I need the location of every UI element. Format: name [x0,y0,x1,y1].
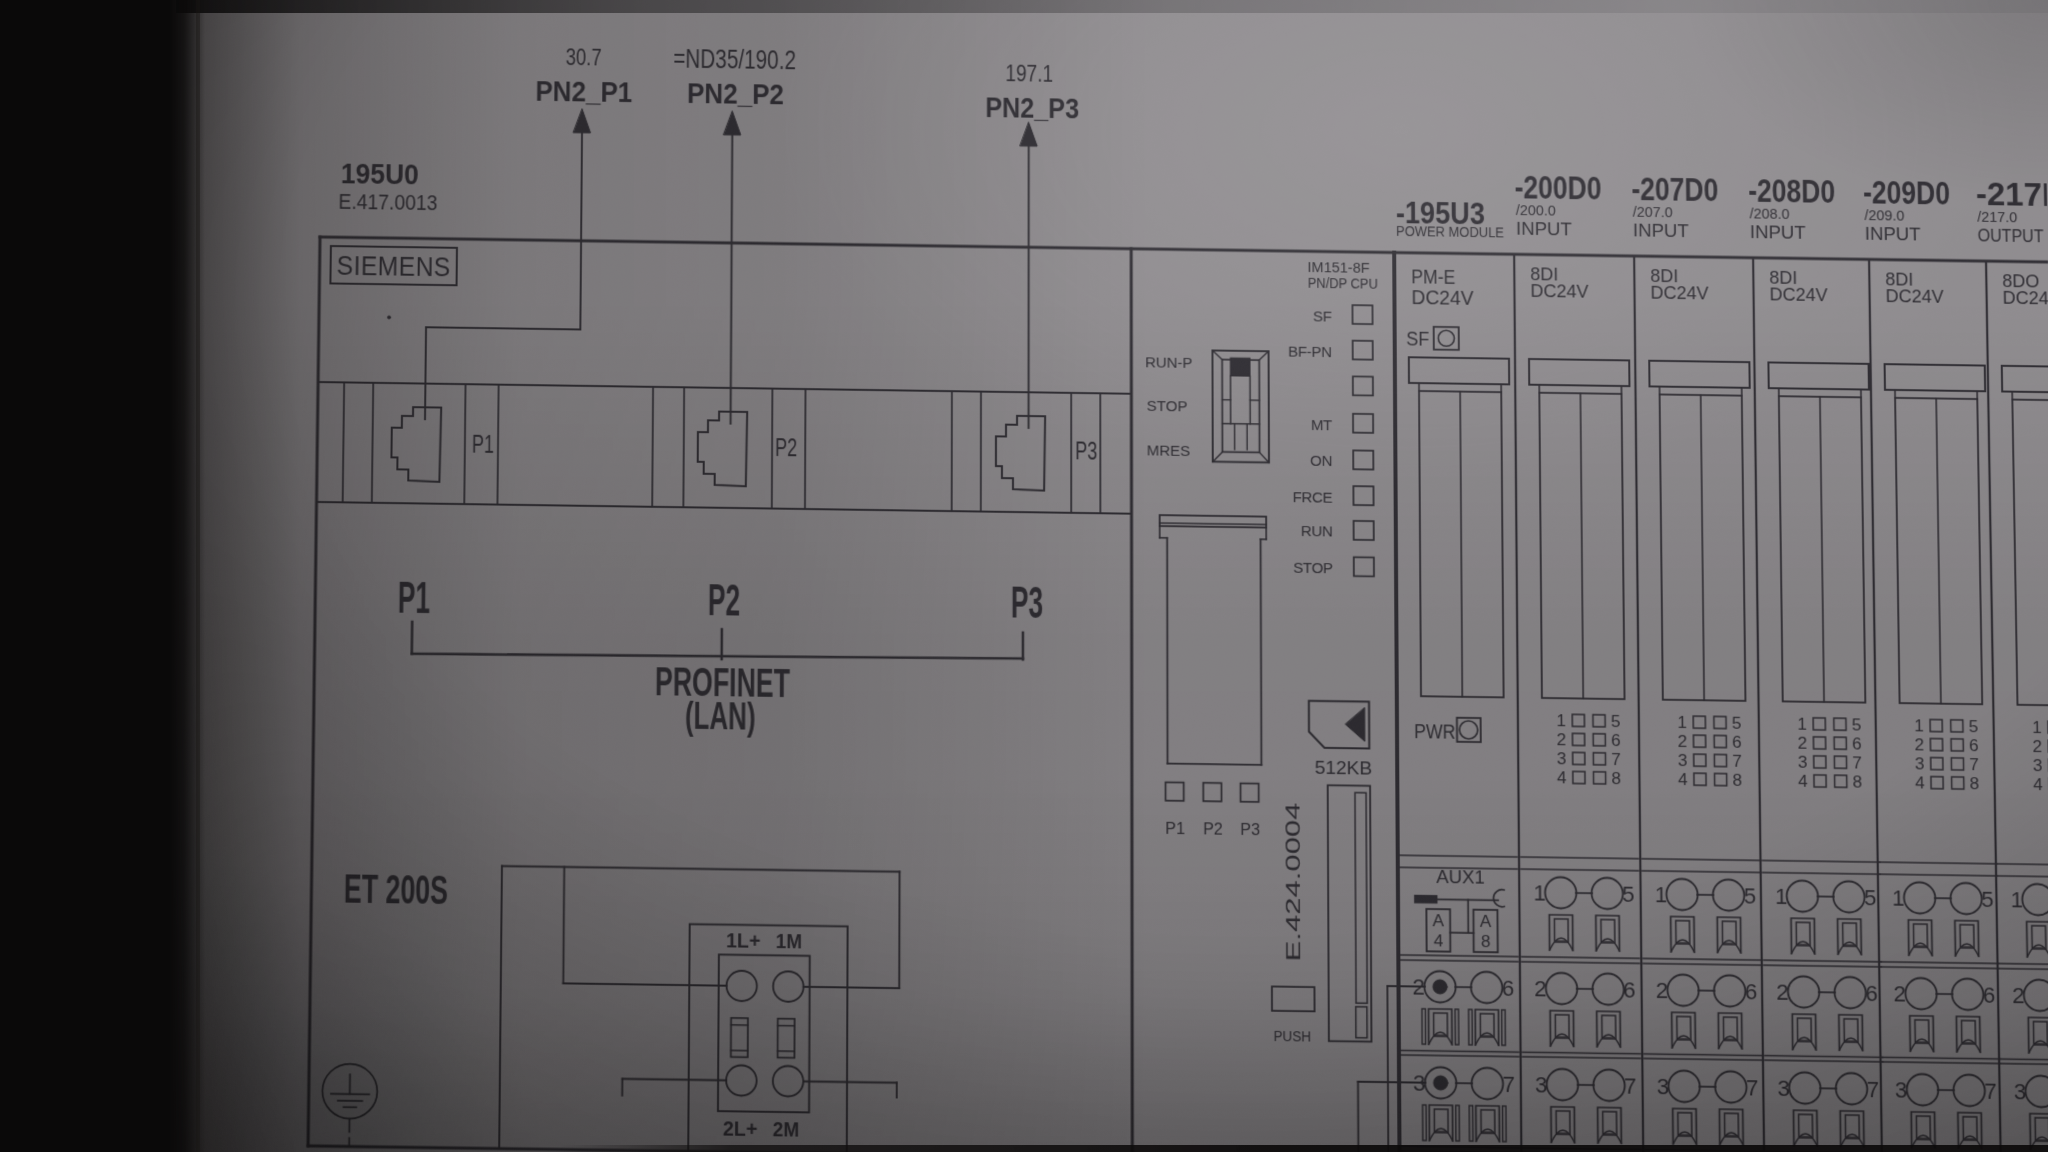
svg-text:7: 7 [1866,1077,1879,1103]
module header -208D0 [1748,173,1836,244]
card slot [1328,785,1372,1041]
svg-text:1: 1 [1892,885,1905,911]
svg-text:5: 5 [1969,717,1979,736]
svg-text:2: 2 [1798,733,1808,752]
PM-E SF LED [1406,326,1459,351]
node PN2_P2 label [673,44,796,112]
svg-text:/209.0: /209.0 [1864,208,1904,225]
svg-text:2: 2 [1534,976,1547,1002]
svg-text:3: 3 [1777,1075,1790,1101]
module -208D0 terminals [1775,880,1880,1147]
svg-text:2: 2 [1914,735,1924,754]
PROFINET LAN bus [396,569,1043,742]
module -217DO terminals [2010,884,2048,1151]
svg-text:7: 7 [1611,750,1621,769]
rack outline [308,237,2048,1152]
svg-text:(LAN): (LAN) [685,694,756,738]
terminal 1L+ [726,971,757,1002]
module -207D0 body [1636,266,1763,1152]
svg-text:P1: P1 [398,573,431,623]
svg-text:E.424.0004: E.424.0004 [1282,802,1305,961]
svg-text:1: 1 [1797,714,1807,733]
svg-text:5: 5 [1622,881,1635,907]
svg-text:2: 2 [1678,732,1688,751]
station designation 195U0 [338,157,438,215]
module -217DO body [1988,271,2048,1152]
svg-text:PWR: PWR [1414,720,1455,744]
CPU port LEDs P1 P2 P3 [1165,782,1260,839]
svg-text:2: 2 [1893,981,1906,1007]
svg-text:3: 3 [1678,751,1688,770]
port P1 RJ45 jack [391,407,494,483]
terminal 2L+ [726,1065,757,1096]
svg-text:1L+: 1L+ [726,929,761,953]
svg-text:3: 3 [2033,756,2043,775]
module column boundary x=1869 [1869,259,1882,1152]
svg-text:PUSH: PUSH [1274,1028,1312,1045]
svg-text:OUTPUT: OUTPUT [1977,225,2043,247]
module -209D0 terminals [1892,882,1998,1149]
protective earth ground [322,1064,378,1147]
PM-E terminal row 3/7 [1413,1067,1515,1142]
svg-text:6: 6 [1983,982,1996,1008]
CPU LED MT [1311,413,1373,434]
svg-text:4: 4 [2033,775,2043,794]
svg-text:-207D0: -207D0 [1631,171,1718,208]
svg-text:-209D0: -209D0 [1863,174,1950,211]
svg-text:6: 6 [1732,732,1742,751]
svg-text:8: 8 [1611,769,1621,788]
svg-text:6: 6 [1611,731,1621,750]
svg-text:5: 5 [1732,713,1742,732]
terminal 2M [773,1066,804,1097]
svg-text:7: 7 [1624,1073,1637,1099]
svg-text:2: 2 [1656,977,1669,1003]
svg-text:PN2_P2: PN2_P2 [687,77,784,111]
svg-text:POWER MODULE: POWER MODULE [1396,224,1504,242]
svg-text:INPUT: INPUT [1750,222,1806,244]
CPU LED STOP [1293,556,1374,577]
svg-text:4: 4 [1798,771,1808,790]
svg-text:2: 2 [2012,983,2025,1009]
svg-text:5: 5 [1981,886,1994,912]
svg-text:7: 7 [1746,1075,1759,1101]
svg-text:1: 1 [1775,883,1788,909]
svg-text:P1: P1 [1165,821,1185,839]
CPU LED SF [1313,305,1373,326]
wire 1L+ feed [563,867,727,986]
svg-text:1: 1 [2032,718,2042,737]
svg-text:3: 3 [1413,1070,1426,1096]
svg-text:5: 5 [1743,883,1756,909]
wire to PM-E terminal 3 [1358,1082,1426,1152]
svg-text:3: 3 [2014,1079,2027,1105]
svg-text:3: 3 [1535,1072,1548,1098]
module column boundary x=1634 [1634,256,1643,1152]
svg-text:P3: P3 [1011,578,1043,628]
CPU LED spare [1353,376,1373,395]
svg-text:512KB: 512KB [1315,757,1373,779]
svg-text:7: 7 [1852,753,1862,772]
svg-text:4: 4 [1678,770,1688,789]
node PN2_P3 label [985,61,1079,125]
svg-text:-200D0: -200D0 [1514,169,1601,206]
svg-text:P2: P2 [1203,821,1223,839]
wire to PM-E terminal 2 [1387,986,1426,1152]
CPU LED BF-PN [1288,340,1373,362]
SIEMENS logo [330,246,457,285]
module column boundary x=1753 [1753,258,1764,1152]
svg-text:6: 6 [1502,975,1515,1001]
svg-text:1: 1 [1655,882,1668,908]
node PN2_P1 label [535,45,632,109]
svg-text:2: 2 [1413,974,1426,1000]
speck [388,316,391,319]
PM-E bus connector [1409,357,1512,697]
terminal block 1L+/1M/2L+/2M [688,924,847,1152]
svg-text:SF: SF [1406,328,1429,350]
svg-text:1: 1 [1914,716,1924,735]
svg-text:SF: SF [1313,309,1332,325]
svg-text:/217.0: /217.0 [1977,210,2017,227]
PUSH button [1272,987,1315,1046]
module header -217DO [1976,176,2048,247]
svg-text:P3: P3 [1240,822,1260,840]
svg-text:P2: P2 [775,434,797,462]
svg-text:6: 6 [1623,977,1636,1003]
svg-text:=ND35/190.2: =ND35/190.2 [673,44,796,76]
fuse F2 [778,1019,795,1058]
svg-text:7: 7 [1969,755,1979,774]
svg-text:6: 6 [1745,979,1758,1005]
svg-text:DC24V: DC24V [1650,283,1708,304]
wire 1M return [804,987,900,988]
CPU LED ON [1310,450,1373,471]
wire PN2_P1 with arrow [425,107,591,422]
svg-text:2M: 2M [773,1118,800,1142]
PM-E PWR LED [1414,717,1481,744]
svg-text:2: 2 [1776,979,1789,1005]
svg-text:7: 7 [1502,1071,1515,1097]
svg-text:7: 7 [1984,1078,1997,1104]
svg-text:AUX1: AUX1 [1436,866,1485,888]
separators PM-E [1400,855,1520,1152]
PM-E terminal row 2/6 [1412,971,1514,1046]
fuse F1 [731,1018,748,1057]
svg-text:P1: P1 [472,430,494,458]
module column boundary x=1986 [1986,261,2001,1152]
svg-text:195U0: 195U0 [341,157,419,191]
svg-text:RUN-P: RUN-P [1145,356,1193,373]
svg-text:A: A [1432,911,1444,931]
svg-text:8: 8 [1852,772,1862,791]
svg-text:8: 8 [1481,932,1491,952]
svg-text:-217DO: -217DO [1976,176,2048,213]
svg-text:8: 8 [1732,771,1742,790]
svg-text:4: 4 [1557,768,1567,787]
svg-text:P2: P2 [708,576,741,626]
svg-text:STOP: STOP [1147,399,1188,416]
svg-text:E.417.0013: E.417.0013 [338,191,437,215]
wire 2M [803,1081,897,1097]
svg-text:5: 5 [1852,715,1862,734]
svg-text:8: 8 [1969,774,1979,793]
svg-text:DC24V: DC24V [1530,281,1588,302]
svg-text:3: 3 [1915,754,1925,773]
svg-text:3: 3 [1798,752,1808,771]
svg-text:1: 1 [1556,711,1566,730]
svg-text:P3: P3 [1075,437,1097,465]
svg-text:/208.0: /208.0 [1749,206,1789,223]
svg-text:INPUT: INPUT [1633,220,1689,242]
svg-text:6: 6 [1852,734,1862,753]
mode selector switch [1145,349,1269,462]
svg-text:STOP: STOP [1293,560,1333,577]
svg-text:INPUT: INPUT [1865,223,1921,245]
module -208D0 body [1755,267,1884,1152]
module -207D0 terminals [1654,879,1759,1146]
svg-text:MRES: MRES [1147,443,1191,460]
wire PN2_P2 with arrow [722,111,741,423]
module header -207D0 [1631,171,1719,242]
svg-text:4: 4 [1915,773,1925,792]
svg-text:2: 2 [1557,730,1567,749]
svg-text:BF-PN: BF-PN [1288,344,1332,361]
port P2 RJ45 jack [698,411,798,487]
svg-text:197.1: 197.1 [1005,61,1053,87]
wire PN2_P3 with arrow [1020,122,1037,428]
svg-text:PN2_P3: PN2_P3 [985,91,1079,125]
svg-text:SIEMENS: SIEMENS [336,251,450,283]
module column boundary x=1514 [1514,254,1521,1152]
svg-text:1: 1 [1677,713,1687,732]
svg-text:5: 5 [1611,712,1621,731]
svg-text:PN2_P1: PN2_P1 [535,75,632,109]
module header -200D0 [1514,169,1602,240]
svg-text:2: 2 [2032,737,2042,756]
interface submodule port band [317,382,1132,514]
svg-text:ON: ON [1310,454,1332,470]
svg-text:INPUT: INPUT [1516,218,1572,240]
svg-text:7: 7 [1732,751,1742,770]
memory card icon 512KB [1309,701,1372,779]
svg-text:DC24V: DC24V [1411,286,1473,310]
svg-text:6: 6 [1969,736,1979,755]
svg-text:5: 5 [1864,885,1877,911]
svg-text:1: 1 [1533,880,1546,906]
svg-text:FRCE: FRCE [1293,490,1333,507]
module -200D0 body [1516,264,1641,1152]
terminal 1M [773,971,804,1002]
module -200D0 terminals [1533,877,1637,1144]
module -209D0 body [1871,269,2002,1152]
svg-text:RUN: RUN [1301,524,1333,541]
CPU LED RUN [1301,520,1374,541]
ET 200S power-supply box [499,866,899,1152]
svg-text:/207.0: /207.0 [1633,205,1673,222]
port P3 RJ45 jack [996,416,1097,492]
svg-text:1M: 1M [776,930,802,954]
svg-text:3: 3 [1657,1074,1670,1100]
svg-text:PN/DP CPU: PN/DP CPU [1308,275,1378,293]
svg-text:ET 200S: ET 200S [344,867,449,913]
svg-text:MT: MT [1311,418,1332,434]
module header -209D0 [1863,174,1951,245]
AUX1 terminal block [1414,865,1504,952]
wire 2L+ [622,1079,726,1097]
svg-text:1: 1 [2010,887,2023,913]
CPU bus connector [1160,515,1267,765]
svg-text:-208D0: -208D0 [1748,173,1835,210]
svg-text:3: 3 [1557,749,1567,768]
svg-text:3: 3 [1895,1077,1908,1103]
svg-text:DC24V: DC24V [1885,286,1943,307]
svg-text:6: 6 [1865,980,1878,1006]
svg-text:A: A [1480,912,1492,932]
svg-text:4: 4 [1434,932,1444,952]
svg-text:DC24V/0.5A: DC24V/0.5A [2002,288,2048,309]
svg-text:IM151-8F: IM151-8F [1308,259,1370,277]
svg-text:30.7: 30.7 [566,45,602,71]
CPU LED FRCE [1293,485,1374,507]
svg-text:/200.0: /200.0 [1516,203,1556,220]
svg-text:DC24V: DC24V [1769,284,1827,305]
IM151-8F CPU module column [1131,249,1399,1152]
power module PM-E -195U3 [1396,196,1505,310]
svg-text:2L+: 2L+ [723,1117,758,1141]
